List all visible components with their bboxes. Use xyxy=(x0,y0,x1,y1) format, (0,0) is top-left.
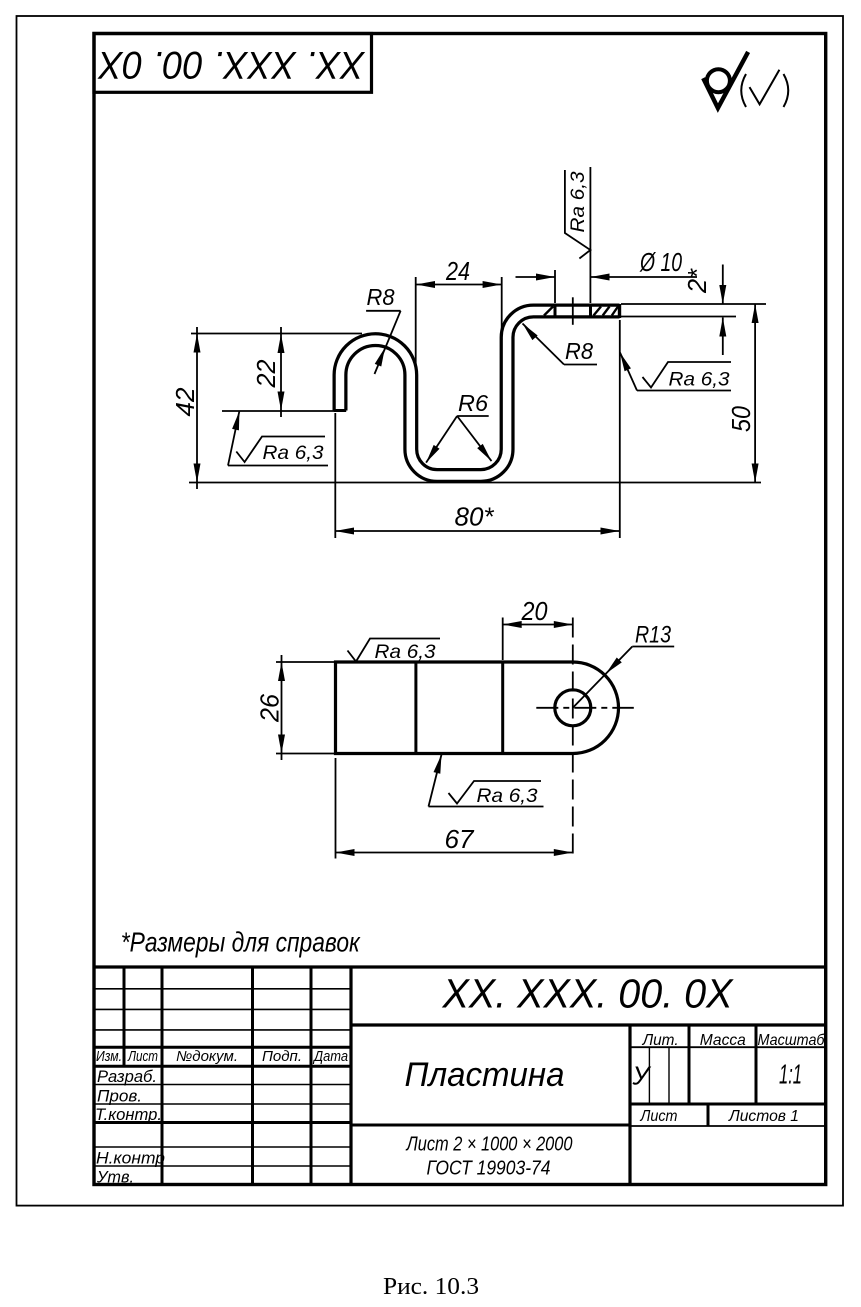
roughness Ra 6,3 bottom (view 2) xyxy=(429,754,544,807)
svg-text:Н.контр: Н.контр xyxy=(96,1150,165,1168)
bend line 2 xyxy=(501,662,504,754)
svg-text:Ra 6,3: Ra 6,3 xyxy=(375,641,436,663)
svg-text:Лит.: Лит. xyxy=(642,1032,679,1049)
roughness Ra 6,3 top (view 2) xyxy=(348,639,441,664)
scale value xyxy=(779,1059,802,1090)
shared bottom extension line xyxy=(189,482,761,484)
dimension 20 xyxy=(503,596,573,660)
plate outline with rounded right end xyxy=(336,662,619,754)
view 1: bent plate profile (section) xyxy=(170,167,766,538)
svg-text:№докум.: №докум. xyxy=(176,1049,238,1065)
header row borders xyxy=(94,1046,351,1049)
radius label R8 left xyxy=(366,284,401,374)
note: sizes for reference xyxy=(121,927,361,958)
svg-text:Пров.: Пров. xyxy=(97,1088,142,1106)
svg-text:Рис. 10.3: Рис. 10.3 xyxy=(383,1274,479,1300)
radius label R6 xyxy=(423,390,494,465)
roughness Ra 6,3 right xyxy=(617,351,731,390)
revision table thin rows xyxy=(94,988,351,990)
lit row bottom xyxy=(630,1103,826,1106)
svg-text:1:1: 1:1 xyxy=(779,1059,802,1090)
svg-text:Т.контр.: Т.контр. xyxy=(95,1106,162,1124)
roughness Ra 6,3 top (rotated, on hole extension line) xyxy=(565,167,591,303)
list / listov labels xyxy=(640,1108,799,1125)
dimension 24 xyxy=(416,256,502,369)
material note xyxy=(405,1134,573,1180)
figure caption xyxy=(383,1274,479,1300)
dimension 26 xyxy=(255,655,337,760)
svg-text:Дата: Дата xyxy=(312,1049,348,1065)
svg-text:Ra 6,3: Ra 6,3 xyxy=(669,369,730,391)
lit/massa/masshtab labels xyxy=(642,1032,826,1049)
dimension Ø10 xyxy=(516,247,698,303)
list/listov row bottom xyxy=(630,1125,826,1127)
svg-text:24: 24 xyxy=(445,256,470,286)
document designation xyxy=(442,971,735,1017)
svg-text:22: 22 xyxy=(251,359,281,388)
hole circle xyxy=(555,690,591,726)
svg-text:Лист 2 × 1000 × 2000: Лист 2 × 1000 × 2000 xyxy=(405,1134,573,1156)
svg-text:Лист: Лист xyxy=(640,1108,678,1125)
svg-text:Подп.: Подп. xyxy=(262,1049,302,1065)
section hatching left patch xyxy=(544,307,553,316)
dimension 22 xyxy=(222,327,335,417)
corner stamp designation text (rotated 180) xyxy=(97,43,366,86)
hole axis line (view1) xyxy=(572,297,574,325)
svg-text:Изм.: Изм. xyxy=(96,1049,122,1065)
svg-text:R13: R13 xyxy=(635,622,672,649)
svg-text:2*: 2* xyxy=(682,268,712,294)
gost cell top xyxy=(351,1124,630,1127)
designation cell bottom xyxy=(351,1023,826,1026)
radius label R8 right xyxy=(520,321,597,364)
svg-text:R6: R6 xyxy=(458,390,488,416)
lit/massa/masshtab header underline xyxy=(630,1046,826,1048)
title block grid xyxy=(94,967,826,1185)
title block header labels xyxy=(96,1049,348,1065)
vertical dashed axis line xyxy=(572,618,574,859)
general surface roughness symbol xyxy=(703,52,788,108)
dimension 42 xyxy=(170,327,362,489)
dimension 80* xyxy=(335,320,620,538)
svg-text:Листов 1: Листов 1 xyxy=(728,1108,799,1125)
svg-text:У: У xyxy=(632,1061,652,1091)
svg-text:Ra 6,3: Ra 6,3 xyxy=(477,785,538,807)
svg-text:42: 42 xyxy=(170,387,200,417)
litera value xyxy=(632,1061,652,1091)
bent strip body (double outline) xyxy=(340,311,620,476)
svg-text:67: 67 xyxy=(445,824,476,854)
corner stamp box xyxy=(94,34,372,93)
strip right end cap xyxy=(618,304,621,318)
signature row lines xyxy=(94,1084,351,1086)
title block signature labels xyxy=(95,1068,165,1187)
svg-text:ХХ. ХХХ. 00. 0Х: ХХ. ХХХ. 00. 0Х xyxy=(442,971,735,1017)
radius label R13 xyxy=(573,622,674,708)
part name xyxy=(405,1056,565,1094)
svg-text:Масса: Масса xyxy=(700,1032,746,1049)
svg-text:80*: 80* xyxy=(455,502,495,532)
dimension 2* xyxy=(621,265,766,356)
svg-text:Утв.: Утв. xyxy=(96,1169,134,1187)
bend line 1 xyxy=(414,662,417,754)
svg-text:Масштаб: Масштаб xyxy=(758,1032,826,1049)
svg-text:50: 50 xyxy=(726,406,756,432)
svg-text:Разраб.: Разраб. xyxy=(97,1068,157,1086)
svg-text:Пластина: Пластина xyxy=(405,1056,565,1094)
strip left end cap xyxy=(334,409,346,412)
svg-text:R8: R8 xyxy=(565,338,593,364)
svg-text:R8: R8 xyxy=(367,284,395,310)
hole right wall xyxy=(589,304,592,319)
dimension 67 xyxy=(336,758,573,859)
svg-text:26: 26 xyxy=(255,693,285,722)
svg-text:Ra 6,3: Ra 6,3 xyxy=(567,171,589,232)
view 2: flat development of the plate xyxy=(255,596,675,859)
inner thick drawing frame xyxy=(94,34,826,1185)
svg-text:Лист: Лист xyxy=(127,1049,158,1065)
section hatching right patch xyxy=(594,307,619,316)
roughness Ra 6,3 left xyxy=(228,410,328,465)
hole left wall xyxy=(554,304,557,319)
vertical dividers xyxy=(123,967,126,1066)
svg-text:*Размеры для справок: *Размеры для справок xyxy=(121,927,361,958)
svg-text:Ø 10: Ø 10 xyxy=(639,247,682,277)
title block top edge xyxy=(94,965,826,968)
horizontal centre line xyxy=(536,707,634,709)
svg-text:Ra 6,3: Ra 6,3 xyxy=(263,442,324,464)
dimension 50 xyxy=(726,304,759,483)
svg-text:ХХ. ХХХ. 00. 0Х: ХХ. ХХХ. 00. 0Х xyxy=(97,43,366,86)
svg-text:ГОСТ 19903-74: ГОСТ 19903-74 xyxy=(427,1158,551,1180)
svg-text:20: 20 xyxy=(521,596,548,626)
